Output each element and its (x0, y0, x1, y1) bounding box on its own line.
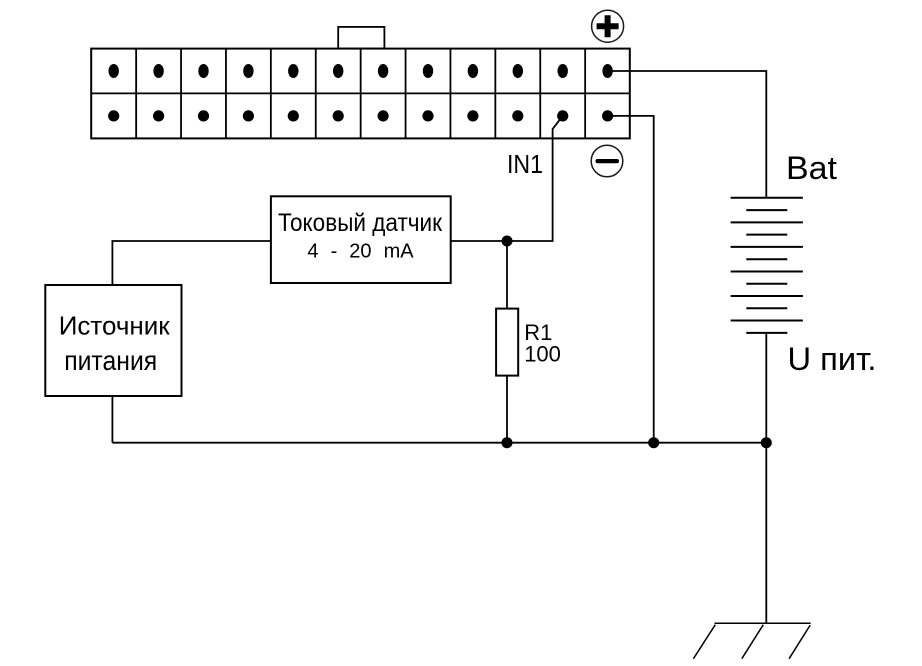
current sensor box (271, 196, 451, 283)
svg-text:100: 100 (524, 342, 561, 367)
wire: IN1 pin to node A (507, 116, 563, 241)
minus terminal symbol (591, 145, 623, 177)
wire: sensor output to node A (451, 240, 507, 242)
junction dot: minus wire on bus (648, 437, 659, 448)
battery Bat plates (731, 198, 803, 333)
svg-text:Источник: Источник (59, 310, 171, 340)
terminal block row divider (91, 92, 630, 94)
power source box (45, 285, 181, 396)
svg-text:Токовый датчик: Токовый датчик (278, 209, 443, 237)
wire: battery bottom to ground bus (765, 333, 767, 443)
ground bus wire (112, 442, 766, 444)
svg-text:питания: питания (64, 345, 157, 376)
terminal block J1 tab (338, 27, 384, 49)
svg-text:Bat: Bat (786, 150, 837, 186)
terminal block column dividers (136, 49, 585, 139)
wire: power source bottom to ground bus (111, 396, 113, 443)
plus terminal symbol (592, 10, 624, 42)
node A junction dot (502, 236, 513, 247)
svg-text:U пит.: U пит. (788, 341, 877, 377)
terminal pins row 2 (108, 110, 613, 121)
wire: bus to ground symbol (765, 443, 767, 624)
wire: resistor R1 bottom lead to ground bus (506, 376, 508, 443)
terminal block J1 outline (91, 49, 630, 139)
junction dot: battery wire on bus (761, 437, 772, 448)
wire: node A to resistor R1 top lead (506, 241, 508, 309)
resistor R1 (496, 309, 518, 376)
wire: plus pin to battery top (608, 71, 767, 198)
svg-text:4 - 20 mA: 4 - 20 mA (307, 241, 414, 263)
wire: sensor input to power source (112, 241, 271, 285)
wire: minus pin down to ground bus (608, 116, 654, 443)
svg-text:IN1: IN1 (507, 149, 543, 179)
ground (693, 623, 810, 659)
terminal pins row 1 (109, 64, 613, 78)
junction dot: R1 on bus (502, 437, 513, 448)
